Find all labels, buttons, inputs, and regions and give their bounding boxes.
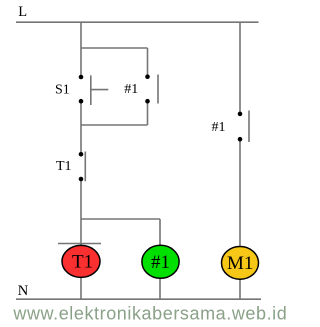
svg-text:#1: #1: [212, 120, 226, 135]
svg-text:L: L: [18, 4, 27, 20]
svg-text:T1: T1: [56, 159, 72, 174]
svg-text:T1: T1: [72, 252, 93, 273]
svg-text:#1: #1: [151, 252, 170, 273]
svg-text:#1: #1: [124, 82, 138, 97]
svg-text:S1: S1: [55, 82, 70, 97]
svg-text:M1: M1: [227, 253, 253, 274]
svg-text:www.elektronikabersama.web.id: www.elektronikabersama.web.id: [12, 304, 287, 324]
svg-text:N: N: [18, 283, 29, 299]
